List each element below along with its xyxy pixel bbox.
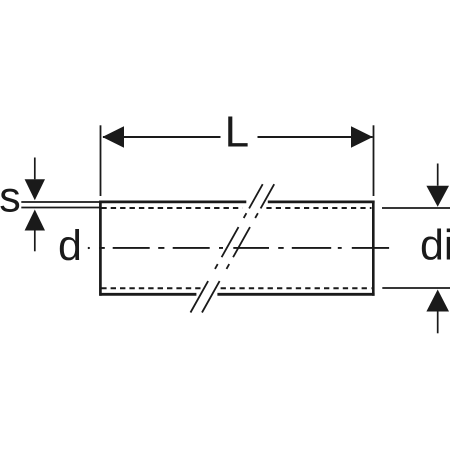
wire: di extension line bottom [382,287,450,289]
tube outer wall: bottom edge (broken by break symbol) [100,293,375,296]
centerline (dash-dot axis) [99,247,389,249]
tube inner wall bottom (dashed), left of break [101,287,200,289]
s dimension arrow bottom: leader line [34,231,36,252]
wire: s wall-thickness double line (inner wall extension) [21,207,100,209]
tube inner wall bottom (dashed), right of break [221,287,372,289]
centerline: leading dot [88,247,90,249]
tube outer wall: right end edge [372,201,375,296]
di dimension arrow top: arrowhead pointing down [426,186,449,207]
svg-text:di: di [420,222,450,270]
arrowhead right of L dimension [351,126,373,148]
wire: s wall-thickness double line (outer wall extension) [21,201,100,203]
break symbol: right diagonal line (dash-dot) [202,184,274,312]
svg-text:L: L [225,108,249,157]
s dimension arrow top: leader line [34,158,36,180]
tube outer wall: top edge (broken by break symbol) [100,200,375,203]
di dimension arrow top: leader line [437,164,439,186]
wire: L dimension line right segment [258,136,373,138]
tube inner wall top (dashed), right of break [266,207,371,209]
wire: di extension line top [382,207,450,209]
di dimension arrow bottom: leader line [437,312,439,334]
s dimension arrow bottom: arrowhead pointing up [25,210,45,231]
svg-text:s: s [0,174,21,222]
di dimension arrow bottom: arrowhead pointing up [426,290,449,312]
svg-text:d: d [58,222,82,270]
wire: L dimension line left segment [103,136,221,138]
wire: L dimension extension line left [100,125,102,196]
s dimension arrow top: arrowhead pointing down [25,179,45,200]
tube inner wall top (dashed), left of break [101,207,242,209]
arrowhead left of L dimension [102,126,124,148]
break symbol: left diagonal line (dash-dot) [191,184,263,312]
tube outer wall: left end edge [99,201,102,296]
wire: L dimension extension line right [373,125,375,196]
